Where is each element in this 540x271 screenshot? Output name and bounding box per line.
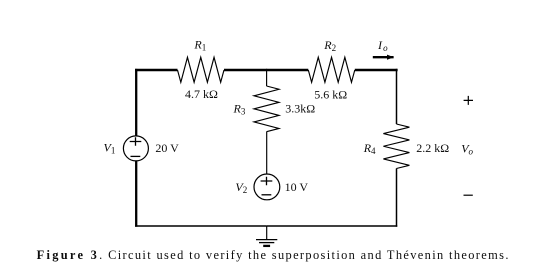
svg-text:20 V: 20 V bbox=[155, 141, 179, 155]
output terminal label: plus sign of Vo bbox=[464, 96, 473, 105]
svg-text:3.3kΩ: 3.3kΩ bbox=[285, 101, 315, 115]
svg-text:V2: V2 bbox=[235, 180, 247, 195]
svg-text:10 V: 10 V bbox=[285, 180, 309, 194]
svg-text:5.6 kΩ: 5.6 kΩ bbox=[314, 87, 347, 101]
resistor R2 bbox=[308, 57, 355, 82]
wire: center stem, R3 bottom lead to V2 positive terminal bbox=[266, 132, 268, 175]
svg-text:2.2 kΩ: 2.2 kΩ bbox=[416, 141, 449, 155]
wire: top side, right segment (R2 right lead to top-right corner) bbox=[355, 69, 398, 71]
wire: top side, middle segment (R1 right lead through node A to R2 left lead) bbox=[224, 69, 308, 71]
wire: right vertical, top section (top-right corner to R4 top lead) bbox=[396, 69, 398, 124]
current arrow Io bbox=[373, 55, 394, 60]
voltage source V1 bbox=[123, 136, 148, 161]
resistor R1 bbox=[178, 57, 225, 82]
svg-text:R3: R3 bbox=[233, 102, 246, 117]
wire: ground stem (ground node to ground symbol) bbox=[266, 226, 268, 240]
wire: bottom side, right segment (bottom-right corner to ground node) bbox=[267, 225, 398, 227]
resistor R4 bbox=[383, 124, 409, 169]
wire: bottom side, left segment (ground node to bottom-left corner) bbox=[135, 225, 267, 227]
svg-text:Figure 3. Circuit used to veri: Figure 3. Circuit used to verify the sup… bbox=[37, 248, 510, 262]
svg-text:R1: R1 bbox=[193, 38, 206, 53]
voltage source V2 bbox=[254, 174, 280, 200]
svg-text:4.7 kΩ: 4.7 kΩ bbox=[185, 87, 218, 101]
resistor R3 bbox=[254, 86, 279, 132]
wire: top side, left segment (top-left corner to R1 left lead) bbox=[135, 69, 177, 71]
output terminal label: minus sign of Vo bbox=[464, 194, 473, 196]
svg-text:Io: Io bbox=[377, 38, 388, 53]
ground bbox=[256, 240, 277, 246]
svg-text:Vo: Vo bbox=[461, 142, 473, 157]
svg-text:R4: R4 bbox=[363, 141, 376, 156]
wire: left vertical, top section (top-left corner to V1 positive terminal) bbox=[135, 69, 137, 136]
wire: left vertical, bottom section (V1 negative terminal to bottom-left corner) bbox=[135, 161, 137, 227]
wire: center stem, node A to R3 top lead bbox=[266, 69, 268, 86]
svg-text:R2: R2 bbox=[323, 38, 336, 53]
wire: right vertical, bottom section (R4 bottom lead to bottom-right corner) bbox=[396, 169, 398, 227]
svg-text:V1: V1 bbox=[104, 141, 116, 156]
